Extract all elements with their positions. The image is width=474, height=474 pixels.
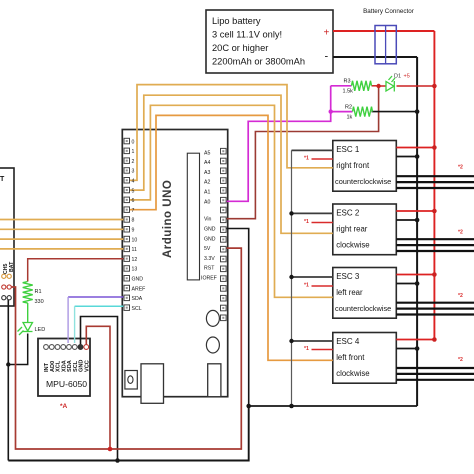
wire: ESC3 black input [292, 276, 333, 278]
wire: magenta link to R3 [331, 85, 352, 87]
svg-text:+5: +5 [404, 74, 410, 80]
right pin labels [201, 150, 217, 281]
svg-text:*2: *2 [458, 230, 463, 236]
svg-text:*1: *1 [304, 219, 309, 225]
labels *2 [458, 165, 463, 364]
ICSP box [208, 364, 221, 397]
wire: magenta A0 to voltage divider [224, 86, 331, 202]
svg-text:MPU-6050: MPU-6050 [46, 379, 87, 389]
svg-text:VCC: VCC [84, 360, 90, 372]
ESC 4 box [333, 333, 397, 384]
svg-text:right rear: right rear [336, 225, 368, 234]
svg-text:*A: *A [60, 403, 68, 410]
wire: ESC3 black out [396, 283, 417, 285]
svg-text:13: 13 [132, 267, 138, 273]
receiver RX box (cropped at left edge) [0, 168, 15, 306]
MPU-6050 pin circles [44, 345, 89, 350]
svg-text:+: + [324, 28, 330, 39]
ESC 3 box [333, 268, 397, 319]
svg-text:3 cell 11.1V only!: 3 cell 11.1V only! [212, 30, 282, 40]
svg-text:ESC 2: ESC 2 [336, 209, 360, 218]
svg-text:A1: A1 [204, 190, 210, 196]
wire: purple SDA to MPU [68, 296, 124, 298]
svg-text:2: 2 [132, 159, 135, 165]
wire: bottom red 5V rail [9, 248, 241, 449]
svg-text:330: 330 [35, 299, 44, 305]
svg-text:ESC 1: ESC 1 [336, 145, 360, 154]
wire: LED cathode to ground [8, 334, 27, 365]
battery B1 box [206, 10, 333, 73]
Arduino left pin header digital [124, 138, 130, 310]
left pin labels [132, 139, 146, 312]
svg-text:left front: left front [336, 353, 365, 362]
wire: MPU VCC red [86, 326, 110, 449]
wire: ESC2 motor wires [396, 239, 474, 251]
wire: ground return horizontal to Arduino GND [249, 405, 417, 407]
wire: ESC4 motor wires [396, 368, 474, 380]
wire: ESC1 black input [292, 149, 333, 151]
svg-text:*2: *2 [458, 357, 463, 363]
svg-text:LED: LED [35, 327, 46, 333]
svg-text:CH5: CH5 [3, 264, 9, 274]
wire: Arduino right GND to ground return [224, 229, 249, 407]
svg-text:A2: A2 [204, 180, 210, 186]
svg-text:Battery Connector: Battery Connector [363, 8, 414, 15]
svg-text:7: 7 [132, 208, 135, 214]
junction dot magenta [329, 109, 333, 113]
wire: ESC3 motor wires [396, 303, 474, 315]
wire: ESC4 black out [396, 348, 417, 350]
svg-text:2200mAh or 3800mAh: 2200mAh or 3800mAh [212, 57, 305, 67]
svg-text:0: 0 [132, 139, 135, 145]
svg-text:GND: GND [132, 277, 144, 283]
svg-text:ESC 4: ESC 4 [336, 337, 360, 346]
resistor R2 1k [353, 107, 373, 117]
svg-text:GND: GND [204, 227, 216, 233]
svg-text:1k: 1k [347, 115, 353, 121]
svg-text:AREF: AREF [132, 286, 146, 292]
svg-text:1.5k: 1.5k [343, 89, 354, 95]
svg-text:T: T [0, 176, 5, 183]
tall inner rectangle [187, 153, 199, 280]
wire: ESC1 motor wires [396, 176, 474, 188]
svg-text:11: 11 [132, 247, 137, 253]
svg-text:3: 3 [132, 169, 135, 175]
wire: receiver ch3 orange to pin10 [0, 238, 125, 240]
wire: orange pin5 to ESC2 signal [129, 95, 333, 233]
svg-text:left rear: left rear [336, 288, 363, 297]
MPU-6050 box [38, 339, 90, 397]
wire: orange pin6 to ESC3 signal [129, 105, 333, 297]
svg-text:-: - [325, 51, 329, 63]
junction dots black [6, 109, 419, 463]
wire: D1 anode lead [379, 85, 386, 87]
wire: MPU GND path [81, 317, 118, 461]
LED D1 [386, 76, 395, 92]
wire: D1 cathode to red rail [397, 85, 435, 87]
svg-text:R2: R2 [345, 105, 352, 111]
svg-text:counterclockwise: counterclockwise [335, 304, 391, 313]
Arduino right pin header [221, 148, 227, 320]
svg-text:RST: RST [204, 266, 215, 272]
wire: ESC4 black input [292, 340, 333, 342]
junction dots red [108, 84, 437, 452]
svg-text:D1: D1 [394, 74, 401, 80]
wire: Vin dark red from divider node [224, 86, 379, 219]
wire: ESC2 red out [396, 210, 434, 212]
resistor R3 1.5k [352, 81, 372, 91]
resistor R1 330 [23, 282, 33, 304]
svg-text:20C or higher: 20C or higher [212, 43, 268, 53]
wire: cyan SCL to MPU [75, 305, 125, 307]
svg-text:10: 10 [132, 237, 138, 243]
svg-text:A4: A4 [204, 160, 210, 166]
svg-text:9: 9 [132, 228, 135, 234]
svg-text:IOREF: IOREF [201, 276, 217, 282]
svg-text:Lipo battery: Lipo battery [212, 16, 261, 26]
wire: receiver GND down [7, 299, 9, 461]
svg-text:Arduino UNO: Arduino UNO [162, 180, 174, 258]
svg-text:12: 12 [132, 257, 138, 263]
svg-text:6: 6 [132, 198, 135, 204]
svg-text:A5: A5 [204, 150, 210, 156]
Arduino UNO U1 board [122, 130, 227, 404]
wire: ESC signal-ground chain vertical [291, 150, 293, 406]
svg-text:Vin: Vin [204, 217, 212, 223]
svg-text:1: 1 [132, 149, 135, 155]
wire: ESC2 red *1 stub [312, 222, 333, 224]
wire: R3 right lead to node [372, 85, 379, 87]
wire: ESC1 red *1 stub [312, 158, 333, 160]
svg-text:4: 4 [132, 179, 135, 185]
wire: ESC2 black out [396, 219, 417, 221]
svg-text:R3: R3 [344, 79, 351, 85]
svg-text:*1: *1 [304, 346, 309, 352]
svg-text:*2: *2 [458, 165, 463, 171]
mounting hole circles [206, 310, 219, 326]
svg-text:SCL: SCL [132, 306, 142, 312]
svg-text:A3: A3 [204, 170, 210, 176]
svg-text:R1: R1 [35, 289, 42, 295]
battery connector J1 [375, 26, 396, 64]
LED LED1 [18, 323, 33, 336]
wire: magenta branch to R2 [331, 111, 353, 113]
wire: pin12 red to R1 [28, 259, 125, 282]
header pin holes [126, 140, 225, 319]
wire: ESC4 red *1 stub [312, 349, 333, 351]
MPU pin labels [44, 360, 90, 372]
svg-text:*1: *1 [304, 156, 309, 162]
svg-text:ESC 3: ESC 3 [336, 272, 360, 281]
wire: receiver ch2 orange to pin9 [0, 228, 125, 230]
wire: black ground rail (right vertical) [416, 57, 418, 406]
ESC 2 box [333, 204, 397, 255]
wire: bottom black ground rail [8, 406, 248, 461]
wire: ESC2 black input [292, 212, 333, 214]
wire: battery + to connector to red rail [333, 30, 434, 32]
svg-text:A0: A0 [204, 199, 210, 205]
svg-text:BAT: BAT [9, 261, 15, 272]
svg-text:*1: *1 [304, 283, 309, 289]
wire: ESC4 red out [396, 339, 434, 341]
svg-text:right front: right front [336, 161, 370, 170]
power jack [125, 371, 137, 390]
wire: orange pin7 to ESC4 signal [129, 115, 333, 360]
svg-text:SDA: SDA [132, 296, 143, 302]
labels *1 [304, 156, 309, 353]
wire: orange pin4 to ESC1 signal [129, 85, 333, 181]
svg-text:3.3V: 3.3V [204, 256, 215, 262]
wire: battery - to connector to black rail [333, 56, 417, 58]
receiver pin circles [2, 274, 12, 300]
svg-text:*2: *2 [458, 293, 463, 299]
wire: red power rail (right vertical) [433, 31, 435, 340]
svg-text:5V: 5V [204, 246, 211, 252]
wire: ESC1 black out [396, 156, 417, 158]
ESC 1 box [333, 141, 397, 192]
svg-text:5: 5 [132, 188, 135, 194]
svg-text:8: 8 [132, 218, 135, 224]
svg-text:clockwise: clockwise [336, 369, 369, 378]
wire: R2 right lead to ground rail [372, 111, 418, 113]
wire: receiver ch1 orange to pin8 [0, 219, 125, 221]
USB connector [141, 364, 164, 404]
svg-text:GND: GND [204, 236, 216, 242]
wire: ESC3 red *1 stub [312, 285, 333, 287]
svg-text:clockwise: clockwise [336, 241, 369, 250]
svg-text:counterclockwise: counterclockwise [335, 177, 391, 186]
wire: ESC1 red out [396, 147, 434, 149]
wire: receiver ch4 orange to pin11 [0, 248, 125, 250]
wire: ESC3 red out [396, 274, 434, 276]
